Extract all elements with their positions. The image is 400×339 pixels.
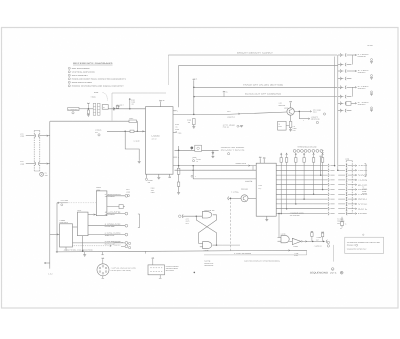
svg-text:2 FOCUS: 2 FOCUS (95, 130, 101, 132)
wire from row to U1675D (278, 214, 280, 238)
notes item 2 (68, 71, 70, 73)
label row 4 (355, 179, 357, 181)
svg-text:5-2: 5-2 (340, 228, 342, 230)
wire return below (204, 250, 307, 255)
svg-text:6 P.O.: 6 P.O. (20, 161, 24, 163)
diode CR1636 to ground (212, 150, 214, 155)
wire from INTENSITY to transformer (79, 108, 93, 110)
arrow into left frame (45, 262, 50, 264)
U1630 pin stub right y132.6 (173, 132, 177, 134)
wire vertical right of gates (332, 245, 334, 262)
IC U1640 oscillator (77, 212, 88, 236)
svg-text:4 T1601: 4 T1601 (91, 97, 96, 99)
svg-text:4 CRYSTAL OSCILLATOR CONN: 4 CRYSTAL OSCILLATOR CONN (111, 268, 136, 270)
capacitor C1641 cluster (192, 156, 196, 159)
svg-text:3 W.B.: 3 W.B. (178, 132, 182, 134)
pointer arc from label 4 (103, 93, 108, 101)
svg-text:BOARD: BOARD (362, 193, 367, 195)
wire U1670 output row 7 (276, 193, 328, 195)
enclosure border line (112, 93, 166, 121)
svg-text:1060: 1060 (45, 175, 48, 177)
svg-text:SUP: SUP (321, 152, 324, 154)
svg-text:SUPPLY: SUPPLY (358, 104, 366, 106)
threshold pin circle 5 (308, 150, 311, 153)
svg-text:VERTICAL AMPLIFIER: VERTICAL AMPLIFIER (72, 72, 95, 74)
svg-text:U1630: U1630 (126, 191, 130, 193)
svg-text:+5V: +5V (162, 100, 164, 102)
connector pin row P1-2 (338, 64, 344, 66)
svg-text:U1665: U1665 (20, 164, 24, 166)
ground at P1 row 7 (371, 107, 373, 109)
wire tie rows 5-6 (351, 87, 353, 96)
wire Q1030 to U1670 (248, 197, 256, 199)
wire U1670 output row 6 (276, 189, 328, 191)
wire U1670 output row 11 (276, 213, 328, 215)
wire sweep output row 3 (88, 225, 125, 227)
wire U1630 to Q1070 base (173, 113, 226, 115)
resistor R1633 (192, 119, 195, 125)
U1630 bottom pin 2 ground (158, 174, 160, 177)
svg-text:2 CRYSTAL CAL: 2 CRYSTAL CAL (114, 242, 124, 244)
resistor pull-up R1685 (313, 153, 315, 158)
pin circle output 5 (125, 242, 128, 245)
svg-text:J1011: J1011 (345, 158, 349, 160)
svg-text:DRIVE PULSE: DRIVE PULSE (311, 119, 320, 121)
sub-assembly box A2 (278, 121, 287, 130)
threshold pin circle 8 (320, 150, 323, 153)
svg-text:6 +12V: 6 +12V (358, 86, 369, 88)
svg-text:6 +5V: 6 +5V (279, 103, 283, 105)
svg-text:TO REPLACE SCREEN AND CIRCUIT: TO REPLACE SCREEN AND CIRCUIT SEE (347, 242, 380, 244)
ground at P1 row 1 (371, 59, 373, 61)
transformer T1601 winding 2 (97, 103, 100, 115)
svg-text:6 BATT DETAIL: 6 BATT DETAIL (166, 266, 179, 268)
ground at staircase end (138, 160, 141, 162)
U1630 pin stub y157 (173, 156, 177, 158)
svg-text:SUPPLY: SUPPLY (358, 72, 366, 74)
threshold pin circle 3 (301, 150, 304, 153)
tick above note box (363, 234, 364, 235)
IC U1650 sweep generator (96, 191, 107, 216)
IC U1670 sequencer (256, 163, 276, 216)
svg-text:P1 HDA: P1 HDA (368, 45, 373, 47)
svg-text:P.O. REAR: P.O. REAR (337, 218, 343, 220)
svg-text:CHARACTER SIGNAL: CHARACTER SIGNAL (221, 147, 245, 149)
stub tick on cal line (102, 252, 104, 255)
wire U1670 output row 3 (276, 174, 328, 176)
svg-text:2 4XTAL CLOCK: 2 4XTAL CLOCK (105, 233, 121, 235)
ferrite bead (filled) on char wire (190, 146, 193, 149)
svg-text:RASTER DISPLAY SYNCHRONIZING: RASTER DISPLAY SYNCHRONIZING (244, 261, 281, 263)
wire Q1070 collector right (294, 110, 310, 112)
svg-text:SEQUENCING: SEQUENCING (310, 272, 328, 275)
svg-text:U1660: U1660 (20, 136, 24, 138)
wire branch y178.9 to U1670 (193, 166, 256, 179)
svg-text:.01: .01 (196, 161, 198, 163)
svg-text:C5: C5 (226, 92, 228, 94)
svg-text:OUT: OUT (105, 235, 116, 237)
IC U1645 divider (60, 224, 73, 247)
svg-text:(INTENSITY INPUTS): (INTENSITY INPUTS) (221, 149, 245, 151)
pin stub node at bus C/D feed (193, 80, 195, 114)
ground for R1631 column (177, 192, 180, 194)
wire U1645 bottom to calibrator line (65, 247, 67, 251)
svg-text:R1631: R1631 (175, 124, 179, 126)
svg-text:P1: P1 (196, 79, 198, 81)
latch cross wire top-to-bottom (199, 215, 217, 244)
svg-text:BOTTOM: BOTTOM (166, 270, 174, 272)
wire into U1675C (183, 215, 202, 217)
capacitor C1638 on column (177, 182, 179, 186)
osc connector top pin (102, 259, 104, 264)
svg-text:U1675A: U1675A (293, 246, 298, 248)
svg-text:2 C1628: 2 C1628 (148, 180, 153, 182)
svg-text:+5V: +5V (321, 150, 323, 152)
wire into U1645 from frame (50, 233, 60, 235)
svg-text:TO: TO (362, 186, 364, 188)
svg-text:U1660: U1660 (293, 128, 297, 130)
connector pin row P1-6 (338, 96, 344, 98)
wire bus A BRIGHT DENSITY SUPPLY (168, 54, 337, 56)
label row 7 (355, 194, 357, 196)
svg-text:U1675B: U1675B (204, 250, 209, 252)
svg-text:PAGE 2: PAGE 2 (347, 245, 355, 247)
svg-text:REFERENCE DIAGRAMS: REFERENCE DIAGRAMS (73, 62, 113, 65)
pin feed left of rows (320, 157, 322, 175)
svg-text:4 +GATE 100: 4 +GATE 100 (314, 245, 322, 247)
component on row 7 (346, 101, 351, 105)
wire U1630 character signal y150.3 (175, 149, 219, 151)
label row 8 (355, 198, 357, 200)
resistor pull-up R1686 (322, 153, 324, 158)
inductor box L1631 (195, 145, 202, 151)
label row 11 (355, 213, 357, 215)
svg-text:UNREG: UNREG (358, 56, 366, 58)
U1630 bottom pin 3 (169, 174, 171, 176)
tick mark mid line (145, 251, 147, 253)
pin cluster on branch (191, 175, 193, 177)
transistor Q1030 (241, 195, 248, 202)
arrow cluster top of x57 (57, 202, 59, 204)
svg-text:CRT INTERFACE: CRT INTERFACE (72, 68, 90, 70)
svg-text:DS: DS (45, 173, 47, 175)
label row 10 (355, 208, 357, 210)
resistor pull-up R1682 (286, 153, 288, 158)
osc connector bottom pin (102, 276, 104, 278)
latch cross wire bottom-to-top (196, 216, 216, 245)
svg-text:LIMIT: LIMIT (117, 106, 121, 108)
svg-text:.001: .001 (131, 104, 134, 106)
label INTENSITY box (68, 108, 79, 111)
pin circle output 1 (125, 194, 128, 197)
svg-text:TRIG: TRIG (358, 180, 368, 182)
svg-text:SHOWN FROM: SHOWN FROM (166, 268, 178, 270)
svg-text:HORIZ AND FRONT PANEL CONNECTO: HORIZ AND FRONT PANEL CONNECTOR ASSIGNME… (72, 79, 126, 81)
pin circle output 3 (125, 224, 128, 227)
svg-text:6 +100V: 6 +100V (358, 54, 369, 56)
wire tap vertical x230 to cal line (230, 198, 232, 251)
gate U1675A (292, 238, 301, 244)
svg-text:Q1070: Q1070 (284, 107, 288, 109)
svg-text:TO U1630: TO U1630 (105, 196, 116, 198)
extra pin circle (121, 245, 125, 247)
box right of transformer (102, 105, 108, 110)
label row 6 (355, 189, 357, 191)
svg-text:FRONT: FRONT (362, 189, 367, 191)
svg-text:4 SWEEP GATE: 4 SWEEP GATE (290, 213, 304, 215)
svg-text:DATA COLLECTION: DATA COLLECTION (72, 82, 92, 84)
ground below R1633 (193, 125, 195, 127)
wire bus C TRACE CRT VALUES (194, 86, 337, 88)
svg-text:U1640: U1640 (77, 210, 81, 212)
wire U1645 to U1640 (73, 226, 78, 228)
capacitor C1652 inline (107, 206, 119, 208)
U1630 pin stub right y110.8 (173, 110, 177, 112)
wire crystal calibrator / line trigger (56, 250, 307, 252)
label row 2 (355, 170, 357, 172)
wire bus B vertical (178, 65, 180, 107)
svg-text:BLNK: BLNK (279, 126, 282, 128)
svg-text:Q1030: Q1030 (241, 189, 249, 191)
ground at P1 row 5 (371, 91, 373, 93)
connector pin row P1-8 (338, 110, 344, 112)
svg-text:SEE PARTS LIST: SEE PARTS LIST (204, 263, 213, 265)
resistor pull-up R1681 (280, 153, 282, 158)
wire transformer box to U1630 (108, 108, 145, 110)
indicator DS1060 (40, 172, 44, 176)
gate U1675D (281, 236, 289, 243)
component stub on bus D (223, 93, 225, 97)
node +100V stub (129, 98, 131, 108)
tie vertical before U1670 (252, 166, 254, 171)
notes item 5 (68, 81, 70, 83)
resistor R1072 below Q1070 (290, 115, 292, 121)
wire gate output (303, 240, 326, 242)
svg-text:10K: 10K (188, 122, 190, 124)
wire U1670 output row 8 (276, 198, 328, 200)
bus vertical line right 2 (337, 55, 339, 170)
svg-text:BLNK AMP: BLNK AMP (279, 105, 286, 107)
svg-text:LINE: LINE (358, 213, 368, 215)
resistor R1604 inline (129, 120, 137, 123)
svg-text:CHAR: CHAR (258, 185, 262, 187)
svg-text:U1650: U1650 (96, 189, 100, 191)
svg-text:2 C1641: 2 C1641 (196, 159, 201, 161)
U1630 +5V top pin (160, 102, 162, 107)
wire sweep output row 5 (73, 242, 125, 244)
note box bottom right (345, 237, 384, 253)
wire U1670 output row 10 (276, 208, 328, 210)
svg-text:6 INTENSITY: 6 INTENSITY (68, 109, 78, 111)
svg-text:PIN 11: PIN 11 (223, 127, 229, 129)
svg-text:U1675: U1675 (186, 221, 190, 223)
svg-text:CRT CIRCUIT: CRT CIRCUIT (72, 75, 88, 77)
svg-text:POWER DISTRIBUTION AND SIGNAL: POWER DISTRIBUTION AND SIGNAL CIRCUITRY (72, 86, 124, 88)
connector pin row P1-1 (338, 54, 344, 56)
svg-text:1 KHZ OUT: 1 KHZ OUT (114, 244, 121, 246)
Q1070 +5V stub (290, 103, 292, 108)
pin circle output 2 (125, 212, 128, 215)
notes item 3 (68, 74, 70, 76)
svg-text:R1633: R1633 (187, 120, 191, 122)
wire outer loop vertical (167, 55, 169, 85)
bus vertical line right 1 (334, 57, 336, 166)
svg-text:INTENSITY: INTENSITY (117, 104, 124, 106)
notes item 4 (68, 78, 70, 80)
threshold pin circle 2 (297, 150, 300, 153)
wire sweep output row 1 (107, 195, 125, 197)
gate U1675C latch top (202, 212, 212, 218)
U1670 top pin stubs +5V (259, 158, 261, 163)
bracket outputs (138, 214, 140, 228)
svg-text:NOTE: NOTE (204, 261, 210, 263)
capacitor C1609 inline (130, 130, 134, 132)
wire bus B (179, 64, 338, 66)
wire bus D BLACK-OUT OFF COMMAND (194, 96, 337, 98)
connector pin row P1-4 (338, 78, 344, 80)
svg-text:PIN 2: PIN 2 (313, 112, 317, 114)
wire drop to drive pulse (298, 111, 300, 118)
wire sweep output row 4 (88, 234, 125, 236)
crystal Y1010 (341, 217, 343, 222)
bracket grouping rows (365, 164, 367, 177)
svg-text:SYNC: SYNC (358, 204, 368, 206)
wire vertical x57 (56, 203, 58, 252)
connector row 2 wire (26, 163, 34, 165)
wire y170 to U1670 (175, 169, 257, 171)
svg-text:1-5-2: 1-5-2 (48, 273, 52, 276)
U1630 bottom pin 1 (145, 174, 147, 178)
svg-text:2 +15V: 2 +15V (358, 70, 369, 72)
connector J1060 dashed strip (33, 131, 35, 172)
svg-text:PULSE: PULSE (105, 226, 115, 228)
battery detail box BT1001 (148, 265, 165, 275)
notes item 1 (68, 67, 70, 69)
battery box bottom pin (159, 275, 161, 278)
wire horizontal y121 (50, 120, 137, 122)
svg-text:GND: GND (358, 199, 368, 201)
pin symbol with ground (237, 125, 239, 127)
svg-text:4 SWEEP: 4 SWEEP (59, 220, 65, 222)
U1670 bottom ground pin (266, 216, 268, 219)
resistor R1602 to ground (87, 110, 89, 114)
svg-text:PIN 3: PIN 3 (186, 223, 189, 225)
notes item 6 (68, 85, 70, 87)
svg-text:2 UNBLANK: 2 UNBLANK (105, 224, 121, 226)
svg-text:R1614: R1614 (131, 99, 135, 101)
svg-text:SUPPLY: SUPPLY (358, 88, 366, 90)
dashed wire calibrator out (73, 245, 112, 247)
svg-text:C1636: C1636 (175, 129, 179, 131)
svg-text:U1660 PIN 5: U1660 PIN 5 (227, 116, 235, 118)
svg-text:U1675D: U1675D (281, 234, 286, 236)
ground at P1 row 3 (371, 75, 373, 77)
svg-text:SCHEMATIC NOTES PG 2: SCHEMATIC NOTES PG 2 (347, 249, 367, 251)
wire U1670 output row 9 (276, 203, 328, 205)
wire U1670 output row 1 (276, 165, 328, 167)
svg-text:CRT INT: CRT INT (152, 139, 157, 141)
svg-text:2 +GATE: 2 +GATE (105, 212, 121, 214)
svg-text:2 P.O. U1650: 2 P.O. U1650 (61, 200, 69, 202)
svg-text:U1675 2A: U1675 2A (205, 210, 215, 212)
transformer T1601 winding 1 (93, 103, 96, 115)
gate U1675B latch bottom (203, 242, 212, 249)
wire U1640 to U1650 (88, 214, 96, 216)
wire sweep output row 2 (107, 213, 125, 215)
svg-text:100K: 100K (151, 190, 154, 192)
svg-text:OUT: OUT (316, 239, 319, 241)
svg-text:4 +GATE: 4 +GATE (316, 237, 321, 239)
svg-text:2 +SAWTOOTH: 2 +SAWTOOTH (105, 194, 121, 196)
threshold pin circle 6 (312, 150, 315, 153)
dotted wire to U1650 (68, 202, 97, 204)
pin circle output 4 (125, 233, 128, 236)
svg-text:.01: .01 (175, 131, 177, 133)
threshold pin circle 7 (316, 150, 319, 153)
svg-text:+CABLE TO: +CABLE TO (311, 117, 318, 119)
label row 1 (355, 165, 357, 167)
svg-text:4 XTAL: 4 XTAL (231, 191, 240, 193)
svg-text:C1613: C1613 (131, 102, 135, 104)
wire U1640 bottom to calibrator line (82, 236, 84, 251)
svg-text:SEQ: SEQ (258, 188, 261, 190)
diode CR1611 on wire (116, 106, 119, 109)
svg-text:4 CRYSTAL CALIBRATOR: 4 CRYSTAL CALIBRATOR (64, 249, 93, 251)
diagram title SEQUENCING (331, 268, 334, 271)
wire tie rows 1-2 (351, 55, 353, 65)
registration dot (194, 272, 196, 274)
battery box top pin (152, 259, 154, 265)
svg-text:C1629: C1629 (151, 192, 155, 194)
svg-text:10M: 10M (148, 182, 151, 184)
resistor column R1631 (178, 146, 180, 192)
wire U1675B output to U1675D (212, 244, 216, 246)
svg-text:SYNC: SYNC (294, 255, 298, 257)
connector row 1 wire (26, 135, 34, 137)
wire U1670 output row 2 (276, 169, 328, 171)
connector J1011 dashed body (345, 161, 347, 214)
svg-text:TO U1630: TO U1630 (105, 214, 116, 216)
left frame wire vertical (49, 121, 51, 268)
connector pin row P1-5 (338, 86, 344, 88)
svg-text:6 P.O.: 6 P.O. (20, 133, 24, 135)
svg-text:HV: HV (103, 107, 105, 109)
svg-text:DETAIL (BOTTOM VIEW): DETAIL (BOTTOM VIEW) (111, 270, 132, 272)
svg-text:R1604: R1604 (129, 118, 133, 120)
svg-text:TO U1675D: TO U1675D (290, 215, 300, 217)
svg-text:47K: 47K (175, 126, 177, 128)
pin circle under INTENSITY (72, 112, 74, 114)
label row 9 (355, 203, 357, 205)
wire U1670 output row 5 (276, 184, 328, 186)
svg-text:4 LINE: 4 LINE (294, 253, 298, 255)
transistor Q1070 (287, 108, 294, 115)
svg-text:6 -12V: 6 -12V (358, 102, 369, 104)
ground stub on cal line (84, 252, 86, 255)
label row 5 (355, 184, 357, 186)
svg-text:R1629: R1629 (151, 188, 155, 190)
svg-text:PANEL: PANEL (362, 191, 366, 193)
svg-text:BLNK: BLNK (358, 184, 368, 186)
threshold pin circle 4 (304, 150, 307, 153)
op-amp U1630 main interface IC (146, 107, 174, 175)
svg-text:INT: INT (95, 132, 97, 134)
resistor stub 2 (322, 237, 324, 242)
ground below R1072 (289, 129, 292, 131)
svg-text:U1630: U1630 (152, 135, 160, 138)
connector pin row P1-3 (338, 70, 344, 72)
svg-text:PIN 7: PIN 7 (293, 130, 296, 132)
